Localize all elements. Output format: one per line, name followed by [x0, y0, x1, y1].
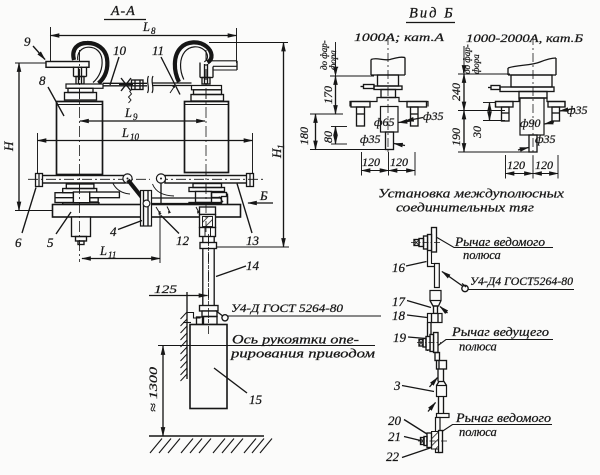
- flange piece: [437, 361, 447, 370]
- svg-text:≈ 1300: ≈ 1300: [146, 367, 160, 412]
- label D65: [374, 115, 395, 129]
- loop conductor left: [73, 43, 107, 83]
- terminal pad 9 left: [46, 62, 89, 68]
- insulator cylinder 8: [57, 102, 103, 175]
- terminal pad right: [207, 61, 237, 70]
- svg-text:13: 13: [246, 233, 260, 248]
- label 4: [110, 224, 117, 239]
- dim 180: [310, 113, 343, 115]
- porcelain body A: [371, 57, 405, 75]
- insulator cylinder right: [185, 102, 229, 173]
- dim 240: [458, 73, 510, 75]
- wall bracket: [187, 313, 201, 319]
- link 19 upper: [428, 323, 432, 352]
- dim 80: [331, 126, 347, 128]
- label 8: [39, 73, 46, 88]
- svg-text:14: 14: [246, 258, 260, 273]
- svg-text:11: 11: [108, 250, 116, 260]
- label D35 bottom A: [360, 132, 381, 146]
- heading ustanovka tyag: [378, 186, 564, 215]
- label 22: [386, 449, 400, 464]
- svg-text:10: 10: [130, 132, 140, 142]
- label 12: [176, 233, 190, 248]
- svg-text:19: 19: [393, 330, 407, 345]
- svg-text:ф65: ф65: [374, 115, 395, 129]
- central cylinder B: [520, 98, 544, 135]
- turnbuckle 3: [437, 382, 447, 397]
- plate stack left: [55, 184, 119, 207]
- flange plate A: [374, 86, 402, 90]
- weld ticks base: [156, 197, 224, 216]
- drive rod 14: [200, 237, 217, 306]
- title Вид Б: [409, 6, 455, 22]
- svg-text:ф90: ф90: [520, 116, 541, 130]
- svg-text:А-А: А-А: [110, 4, 136, 19]
- label 3: [393, 378, 401, 393]
- upper contact block left: [74, 67, 87, 85]
- label D35 right B: [567, 103, 588, 117]
- svg-text:125: 125: [154, 282, 177, 296]
- loop conductor right: [175, 42, 212, 82]
- svg-text:12: 12: [176, 233, 190, 248]
- dimension L11: [159, 211, 161, 263]
- left pin cap A: [351, 102, 370, 127]
- shaft A: [381, 90, 396, 98]
- label 13: [246, 233, 260, 248]
- label 14: [246, 258, 260, 273]
- text lever vedomogo bottom: [455, 411, 551, 439]
- label D35 right A: [423, 109, 444, 123]
- svg-text:17: 17: [392, 294, 406, 309]
- dim 30: [483, 102, 496, 104]
- label 9: [24, 34, 31, 49]
- pivot left: [123, 174, 132, 183]
- svg-text:20: 20: [388, 413, 402, 428]
- pipe break marks: [148, 76, 154, 93]
- lever pin circle: [143, 200, 150, 207]
- turnbuckle 17: [430, 291, 441, 314]
- svg-text:1000А; кат.А: 1000А; кат.А: [354, 30, 445, 44]
- crank bracket right: [200, 207, 216, 237]
- svg-text:полюса: полюса: [459, 425, 497, 439]
- center link 4: [141, 191, 152, 227]
- svg-text:L: L: [121, 126, 129, 140]
- centerline overlay left pole: [79, 50, 81, 262]
- svg-text:Вид Б: Вид Б: [409, 6, 455, 22]
- svg-text:21: 21: [388, 429, 401, 444]
- label 18: [392, 308, 406, 323]
- centerline overlay right pole: [205, 50, 207, 232]
- label 15: [249, 392, 263, 407]
- svg-text:фора: фора: [471, 54, 481, 74]
- dimension 1300: [162, 346, 164, 436]
- centerline overlay rod: [208, 236, 210, 334]
- svg-text:240: 240: [449, 83, 463, 101]
- svg-text:15: 15: [249, 392, 263, 407]
- svg-text:6: 6: [15, 235, 22, 250]
- tall plate bottom: [436, 418, 441, 453]
- centerline left pole: [79, 50, 81, 246]
- svg-text:ф35: ф35: [567, 103, 588, 117]
- dim 120 120 B: [506, 155, 559, 179]
- svg-text:8: 8: [151, 26, 156, 36]
- flange2 right: [191, 95, 224, 102]
- svg-text:полюса: полюса: [459, 340, 497, 354]
- svg-text:120: 120: [507, 158, 525, 172]
- bottom pin A: [386, 132, 394, 150]
- flange2 left: [65, 93, 97, 101]
- side arm A: [361, 85, 375, 89]
- label 17: [392, 294, 406, 309]
- dimension L10: [37, 133, 39, 175]
- dimension L8: [50, 27, 52, 62]
- flange1 right: [194, 90, 222, 95]
- flange plate B: [500, 87, 554, 92]
- central cylinder A: [381, 107, 399, 133]
- stud left: [76, 77, 84, 85]
- pad plate left: [66, 84, 103, 88]
- svg-text:У4-Д ГОСТ 5264-80: У4-Д ГОСТ 5264-80: [231, 301, 343, 315]
- title A-A: [110, 4, 136, 19]
- svg-text:22: 22: [386, 449, 400, 464]
- bracket hat profile B: [496, 98, 566, 107]
- svg-text:30: 30: [470, 126, 484, 139]
- dim 120 120 A: [362, 152, 416, 176]
- svg-text:У4-Д4 ГОСТ5264-80: У4-Д4 ГОСТ5264-80: [470, 274, 573, 288]
- svg-text:3: 3: [393, 378, 401, 393]
- bearing bar right: [165, 174, 254, 187]
- nut 18: [428, 314, 443, 323]
- svg-text:8: 8: [39, 73, 46, 88]
- svg-text:L: L: [142, 20, 150, 34]
- insulator cap block B: [511, 75, 552, 87]
- hub 19 bolt: [419, 339, 426, 348]
- right pin cap B: [548, 102, 565, 122]
- label 6: [15, 235, 22, 250]
- text lever veduschego: [451, 325, 549, 354]
- link 16: [428, 251, 435, 267]
- dimension H1: [209, 42, 288, 44]
- svg-text:9: 9: [133, 112, 138, 122]
- rod above 3: [438, 369, 444, 382]
- dimension L9: [80, 120, 205, 122]
- dim 170: [330, 75, 374, 77]
- top hub bolt: [414, 239, 424, 247]
- link right: [160, 183, 162, 208]
- turnbuckle weld cross: [119, 78, 133, 103]
- lever left: [128, 180, 146, 203]
- wall line: [186, 292, 188, 379]
- pivot right: [156, 174, 165, 183]
- view arrow B: [259, 188, 268, 203]
- weld arrow 17: [440, 307, 448, 314]
- centerline right pole: [205, 50, 207, 232]
- right pin cap A: [407, 102, 427, 127]
- svg-text:120: 120: [390, 155, 408, 169]
- weld symbol circle GOST 4: [462, 285, 468, 291]
- svg-text:1000-2000А, кат.Б: 1000-2000А, кат.Б: [466, 31, 583, 45]
- svg-text:120: 120: [535, 158, 553, 172]
- rod coupler: [200, 306, 219, 317]
- svg-text:полюса: полюса: [463, 248, 501, 262]
- svg-text:Рычаг ведомого: Рычаг ведомого: [454, 235, 545, 249]
- bearing bar left: [36, 174, 126, 187]
- pad plate right: [192, 86, 222, 90]
- bottom hub centerline: [418, 440, 447, 442]
- svg-text:120: 120: [362, 155, 380, 169]
- side arm B: [488, 86, 500, 90]
- svg-text:80: 80: [321, 131, 335, 143]
- svg-text:16: 16: [392, 260, 406, 275]
- svg-text:Б: Б: [259, 188, 268, 203]
- label 20: [388, 413, 402, 428]
- svg-text:фора: фора: [328, 50, 338, 70]
- top hub centerline: [411, 242, 441, 244]
- label 21: [388, 429, 401, 444]
- plate stack right: [189, 184, 227, 208]
- svg-text:рирования приводом: рирования приводом: [230, 347, 375, 361]
- bracket hat profile A: [350, 98, 428, 107]
- dim 190: [458, 110, 505, 112]
- label 5: [47, 235, 54, 250]
- dim do farfora B: [462, 44, 481, 74]
- svg-text:ф35: ф35: [535, 132, 556, 146]
- weld tick right rod: [170, 85, 175, 93]
- caption 1000-2000A kat.B: [466, 31, 583, 45]
- rod below 3: [439, 397, 444, 414]
- label 16: [392, 260, 406, 275]
- horizontal link rod 12: [151, 194, 228, 209]
- svg-text:170: 170: [321, 86, 335, 104]
- rod below 19: [435, 353, 440, 361]
- svg-text:9: 9: [24, 34, 31, 49]
- turnbuckle body: [132, 80, 144, 90]
- handle axis line: [158, 345, 375, 347]
- hub 19 centerline: [417, 342, 441, 344]
- centerline view B: [532, 36, 534, 156]
- svg-text:Ось рукоятки опе-: Ось рукоятки опе-: [232, 333, 359, 347]
- caption 1000A kat.A: [354, 30, 445, 44]
- upper contact block right: [200, 63, 213, 85]
- svg-text:Рычаг ведущего: Рычаг ведущего: [451, 325, 549, 339]
- svg-text:Н: Н: [1, 141, 16, 152]
- dim do farfora A: [319, 40, 338, 70]
- left pin cap B: [496, 102, 514, 122]
- neck B: [519, 92, 547, 99]
- flange1 left: [68, 88, 93, 92]
- centerline view A: [387, 36, 389, 154]
- svg-text:5: 5: [47, 235, 54, 250]
- wall hatch: [181, 312, 188, 381]
- dimension H: [15, 62, 46, 64]
- svg-text:4: 4: [110, 224, 117, 239]
- label D35 bottom B: [535, 132, 556, 146]
- svg-text:соединительных тяг: соединительных тяг: [396, 200, 534, 215]
- label D90: [520, 116, 541, 130]
- svg-text:L: L: [99, 244, 107, 258]
- weld arrow above 3: [430, 378, 438, 388]
- svg-text:11: 11: [152, 43, 164, 58]
- text lever vedomogo top: [454, 235, 545, 262]
- ground line: [149, 435, 264, 437]
- foot flange: [437, 414, 450, 418]
- top lever hub plates: [424, 228, 437, 253]
- stud right: [202, 78, 210, 85]
- svg-text:ф35: ф35: [423, 109, 444, 123]
- bottom hub plates: [427, 431, 443, 453]
- svg-text:10: 10: [113, 43, 127, 58]
- ground hatch: [150, 439, 272, 454]
- label 19: [393, 330, 407, 345]
- label 11: [152, 43, 164, 58]
- drive handle box 15: [197, 317, 218, 325]
- svg-text:L: L: [124, 106, 132, 120]
- svg-text:190: 190: [449, 128, 463, 146]
- bottom pin B: [529, 135, 537, 152]
- rod below 16: [435, 264, 440, 288]
- svg-text:ф35: ф35: [360, 132, 381, 146]
- svg-text:Рычаг ведомого: Рычаг ведомого: [455, 411, 551, 425]
- weld arrow 20: [428, 403, 436, 412]
- hub 19 plates: [426, 333, 438, 353]
- insulator cap block A: [378, 75, 399, 86]
- support leg left: [72, 217, 91, 245]
- svg-text:1: 1: [276, 145, 286, 150]
- svg-text:180: 180: [297, 127, 311, 145]
- dimension 125: [154, 282, 177, 296]
- weld circle GOST: [222, 315, 228, 321]
- tie rod between poles: [103, 83, 192, 86]
- porcelain body B: [508, 58, 556, 75]
- bottom hub bolt: [421, 437, 428, 446]
- label 10: [113, 43, 127, 58]
- base channel: [53, 205, 241, 218]
- svg-text:Установка междуполюсных: Установка междуполюсных: [378, 186, 564, 201]
- svg-text:18: 18: [392, 308, 406, 323]
